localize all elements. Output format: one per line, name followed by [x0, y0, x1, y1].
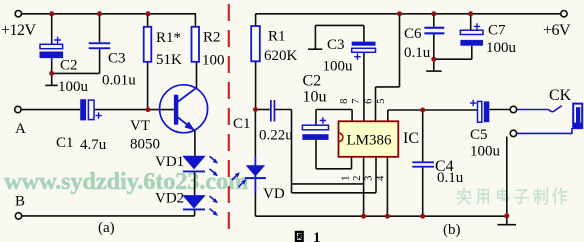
- svg-text:CK: CK: [549, 87, 572, 104]
- svg-text:VT: VT: [130, 118, 150, 134]
- svg-text:A: A: [15, 121, 26, 137]
- svg-text:C1: C1: [233, 116, 251, 132]
- svg-text:C2: C2: [60, 58, 78, 74]
- svg-text:7: 7: [351, 99, 362, 104]
- svg-text:0.01u: 0.01u: [102, 72, 136, 88]
- svg-text:3: 3: [364, 176, 375, 181]
- svg-text:R1: R1: [268, 28, 286, 44]
- svg-text:8: 8: [339, 99, 350, 104]
- svg-text:0.22u: 0.22u: [259, 127, 293, 143]
- svg-text:C1: C1: [56, 135, 74, 151]
- svg-text:C2: C2: [303, 73, 322, 90]
- svg-text:(a): (a): [98, 220, 115, 236]
- svg-text:8050: 8050: [130, 137, 160, 153]
- svg-text:100u: 100u: [58, 79, 89, 95]
- svg-text:C3: C3: [327, 37, 345, 53]
- svg-text:VD: VD: [263, 186, 285, 202]
- svg-text:IC: IC: [403, 130, 419, 147]
- svg-text:R2: R2: [203, 30, 221, 46]
- svg-text:4.7u: 4.7u: [80, 137, 107, 153]
- svg-text:100u: 100u: [486, 40, 517, 56]
- svg-text:100u: 100u: [470, 144, 501, 160]
- svg-text:4: 4: [375, 175, 386, 181]
- svg-text:6: 6: [364, 99, 375, 104]
- svg-text:+6V: +6V: [543, 22, 571, 39]
- svg-text:C6: C6: [404, 26, 422, 42]
- svg-text:LM386: LM386: [347, 133, 393, 149]
- svg-text:www.sydzdiy.6to23.com: www.sydzdiy.6to23.com: [4, 168, 248, 195]
- svg-text:51K: 51K: [156, 52, 182, 68]
- svg-text:C3: C3: [108, 50, 126, 66]
- svg-text:VD1: VD1: [155, 154, 184, 170]
- svg-text:100: 100: [202, 53, 225, 69]
- svg-text:5: 5: [376, 99, 387, 104]
- svg-text:100u: 100u: [323, 58, 354, 74]
- svg-text:2: 2: [352, 176, 363, 181]
- svg-text:C5: C5: [470, 127, 488, 143]
- svg-text:10u: 10u: [303, 89, 327, 106]
- svg-text:C7: C7: [488, 23, 506, 39]
- svg-text:+12V: +12V: [1, 22, 37, 39]
- svg-text:B: B: [15, 194, 25, 210]
- svg-text:0.1u: 0.1u: [404, 45, 431, 61]
- svg-text:R1*: R1*: [156, 30, 181, 46]
- svg-text:620K: 620K: [264, 48, 298, 64]
- svg-text:0.1u: 0.1u: [437, 170, 464, 186]
- svg-text:(b): (b): [443, 222, 461, 238]
- svg-text:1: 1: [313, 230, 321, 242]
- svg-text:VD2: VD2: [155, 190, 184, 206]
- svg-text:1: 1: [340, 176, 351, 181]
